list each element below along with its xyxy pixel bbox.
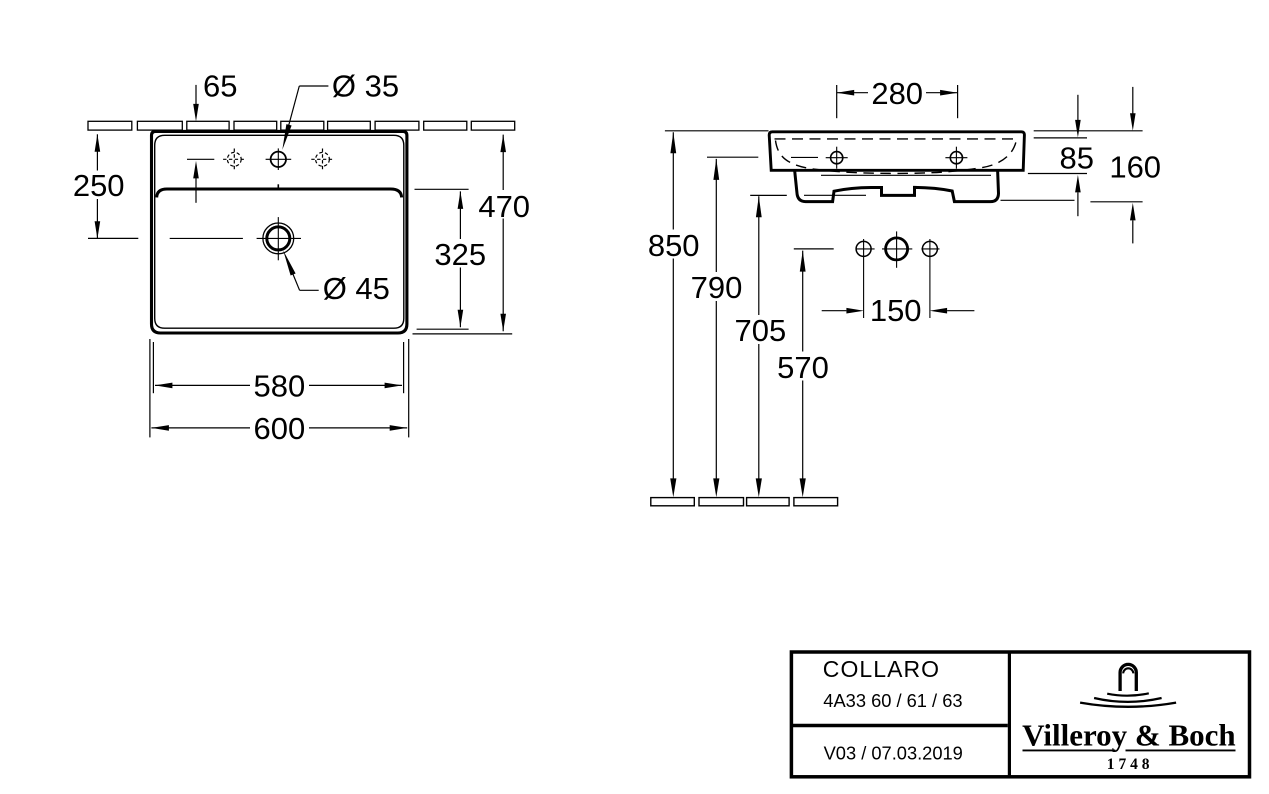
tap hole left (front view) (831, 152, 843, 164)
title block divider vertical (1008, 652, 1011, 777)
dimension 470 (502, 135, 504, 332)
dimension 570 (794, 248, 834, 250)
dimension 790 (707, 156, 758, 158)
svg-text:150: 150 (870, 293, 922, 328)
svg-text:470: 470 (478, 189, 530, 224)
dimension 85 (1077, 95, 1079, 121)
logo faucet arch (1120, 664, 1136, 691)
dimension 325 (459, 191, 461, 327)
svg-text:790: 790 (691, 270, 743, 305)
pedestal centreline segment (804, 194, 866, 196)
mounting hole right (922, 241, 937, 256)
svg-text:85: 85 (1060, 141, 1094, 176)
dimension 600 (149, 339, 151, 437)
svg-text:Ø 35: Ø 35 (332, 68, 399, 103)
dimension 850 (665, 130, 769, 132)
svg-text:65: 65 (203, 68, 237, 103)
svg-text:Ø 45: Ø 45 (323, 271, 390, 306)
basin outer outline (152, 131, 407, 333)
basin inner rim line (155, 135, 404, 328)
dimension 580 (152, 342, 154, 393)
svg-text:325: 325 (434, 237, 486, 272)
hidden bowl curve (dashed) (776, 141, 1017, 174)
svg-text:4A33 60 / 61 / 63: 4A33 60 / 61 / 63 (823, 690, 962, 711)
svg-text:250: 250 (73, 168, 125, 203)
pedestal back top edge (821, 174, 991, 176)
logo ripples (1107, 693, 1149, 695)
svg-text:1748: 1748 (1107, 756, 1154, 773)
svg-text:580: 580 (254, 368, 306, 403)
mounting hole left (856, 241, 871, 256)
svg-text:570: 570 (777, 350, 829, 385)
svg-text:600: 600 (254, 411, 306, 446)
dimension 250 (96, 134, 98, 239)
svg-text:COLLARO: COLLARO (823, 656, 940, 682)
dimension 705 (750, 194, 787, 196)
wall line (segmented) (88, 121, 515, 130)
ledge edge line (157, 189, 402, 197)
svg-text:Villeroy & Boch: Villeroy & Boch (1022, 718, 1236, 753)
label O 45 leader (291, 269, 319, 291)
dimension 280 (836, 85, 838, 118)
extension lines right side (1001, 131, 1143, 202)
tap hole right (front view) (950, 152, 962, 164)
title block frame (791, 652, 1249, 777)
right tap mark (dashed) (311, 149, 333, 171)
pedestal outline (795, 170, 999, 202)
dimension 150 (822, 310, 847, 312)
label O 35 leader (285, 86, 329, 141)
floor line (segmented) (651, 498, 838, 506)
fixing hole centre (886, 238, 908, 260)
svg-text:280: 280 (871, 76, 923, 111)
basin body outline (769, 132, 1024, 171)
dimension 160 (1132, 87, 1134, 114)
tap hole centre (O 35) (271, 152, 286, 167)
svg-text:850: 850 (648, 228, 700, 263)
drain hole (O 45) (263, 223, 294, 254)
drain centreline left (170, 237, 243, 239)
left tap mark (dashed) (223, 149, 245, 171)
svg-text:705: 705 (735, 313, 787, 348)
svg-text:160: 160 (1109, 150, 1161, 185)
title block divider horizontal (793, 724, 1008, 727)
logo underline (1023, 749, 1116, 751)
centre tick above ledge (277, 184, 279, 190)
dimension 65 (187, 85, 214, 203)
tap hole centreline segment (791, 156, 818, 158)
hidden rim line (dashed) (775, 138, 1018, 140)
svg-text:V03 / 07.03.2019: V03 / 07.03.2019 (824, 742, 963, 763)
